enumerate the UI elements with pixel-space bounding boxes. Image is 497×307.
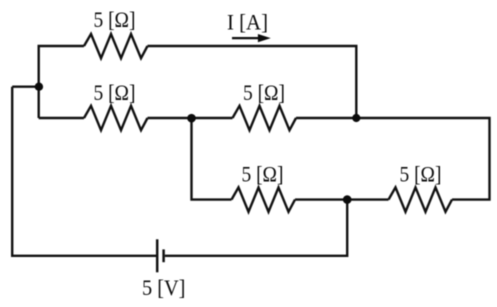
svg-text:5 [Ω]: 5 [Ω] bbox=[400, 161, 442, 186]
battery V1 short plate bbox=[162, 249, 165, 262]
wire node A horizontal bbox=[12, 85, 39, 87]
wire node D to R5 bbox=[347, 198, 388, 200]
wire R4 right lead to node D bbox=[295, 198, 347, 200]
node B bbox=[352, 114, 360, 122]
node A bbox=[35, 83, 43, 91]
resistor R5 bbox=[389, 187, 453, 211]
current arrow bbox=[232, 35, 269, 42]
wire between R2 and R3 bbox=[148, 117, 233, 119]
wire R2 left lead bbox=[39, 117, 84, 119]
wire node B to right corner and down bbox=[296, 118, 490, 200]
svg-text:5 [Ω]: 5 [Ω] bbox=[94, 7, 136, 32]
svg-text:5 [V]: 5 [V] bbox=[142, 275, 186, 300]
resistor R4 bbox=[232, 187, 296, 211]
wire left stub top branch bbox=[39, 46, 84, 118]
battery V1 long plate bbox=[156, 239, 159, 272]
node C bbox=[187, 114, 196, 123]
wire top branch right bbox=[148, 46, 357, 118]
svg-text:5 [Ω]: 5 [Ω] bbox=[94, 80, 136, 105]
svg-text:5 [Ω]: 5 [Ω] bbox=[242, 161, 284, 186]
wire left outer and bottom left bbox=[12, 87, 156, 256]
resistor R1 bbox=[84, 34, 148, 58]
wire node C down and R4 left lead bbox=[192, 118, 232, 200]
svg-text:I [A]: I [A] bbox=[227, 10, 268, 35]
node D bbox=[343, 195, 352, 204]
wire bottom right up to node D bbox=[165, 200, 347, 256]
resistor R2 bbox=[84, 106, 148, 130]
resistor R3 bbox=[233, 106, 297, 130]
svg-text:5 [Ω]: 5 [Ω] bbox=[243, 80, 285, 105]
